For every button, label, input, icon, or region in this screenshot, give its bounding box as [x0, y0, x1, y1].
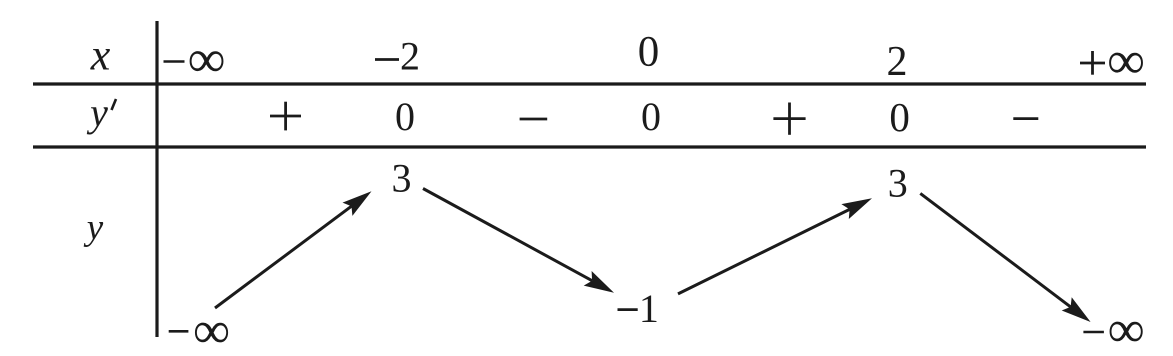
svg-text:∞: ∞: [1107, 32, 1145, 90]
node y' label: [86, 90, 116, 135]
svg-text:0: 0: [395, 94, 415, 139]
svg-text:0: 0: [638, 29, 660, 76]
svg-text:∞: ∞: [193, 303, 230, 356]
wire: vertical table line: [155, 21, 158, 337]
node plus sign 1: [270, 102, 301, 131]
svg-text:0: 0: [641, 94, 661, 139]
wire: arrow 2 down: [423, 189, 614, 293]
svg-text:∞: ∞: [1108, 301, 1145, 356]
wire: arrow 3 up: [678, 198, 872, 294]
svg-text:2: 2: [400, 34, 420, 79]
svg-text:y: y: [86, 90, 108, 135]
wire: arrow 4 down: [920, 193, 1090, 322]
svg-text:1: 1: [639, 286, 659, 331]
svg-text:x: x: [90, 31, 111, 80]
svg-text:3: 3: [392, 156, 412, 201]
node -inf bottom right: [1083, 301, 1144, 356]
wire: arrow 1 up: [215, 191, 372, 308]
svg-text:3: 3: [888, 160, 908, 205]
node -2 row1: [375, 34, 420, 79]
wire: horizontal table line 1: [33, 82, 1146, 85]
node minus sign 2: [1013, 117, 1038, 120]
node minus sign 1: [520, 118, 548, 121]
node -inf bottom left: [169, 303, 230, 356]
node value -1: [618, 286, 659, 331]
node plus sign 2: [773, 103, 805, 135]
svg-text:y: y: [83, 207, 104, 248]
svg-text:0: 0: [889, 94, 910, 140]
svg-text:∞: ∞: [188, 31, 226, 89]
wire: horizontal table line 2: [33, 145, 1146, 148]
node -inf row1: [164, 31, 226, 89]
node +inf row1: [1080, 32, 1145, 90]
svg-text:2: 2: [887, 39, 908, 85]
